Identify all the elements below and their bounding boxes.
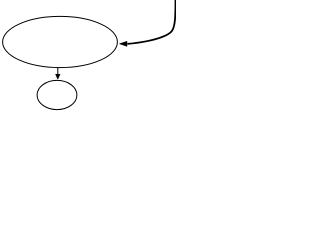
- arrowhead of down edge: [56, 74, 61, 79]
- wire: edge from large ellipse to small ellipse: [57, 68, 59, 74]
- node: small ellipse state: [37, 80, 77, 109]
- node: large ellipse state: [3, 16, 118, 67]
- wire: bold incoming edge from top-right: [128, 0, 176, 44]
- arrowhead of incoming edge: [119, 41, 127, 46]
